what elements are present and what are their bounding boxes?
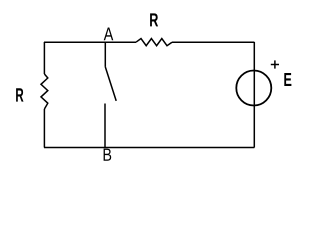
switch S1 lower lead (to node B) — [104, 104, 106, 148]
wire top-right segment (resistor R1 to top-right corner) — [172, 41, 254, 43]
node A label — [104, 28, 114, 41]
node B label — [104, 149, 112, 161]
wire top-left segment (corner to resistor R1, through node A) — [44, 41, 136, 43]
resistor R2 value label R — [16, 88, 23, 101]
voltage source E plus sign — [271, 60, 279, 68]
resistor R1 value label R — [150, 13, 158, 26]
resistor R1 (top) — [136, 39, 172, 46]
wire bottom segment — [44, 147, 254, 149]
switch S1 upper lead (from node A) — [104, 42, 106, 67]
wire right segment (through voltage source E) — [253, 42, 255, 148]
resistor R2 (left) — [41, 74, 48, 109]
wire left-bottom segment (resistor R2 to bottom-left corner) — [43, 109, 45, 148]
voltage source E value label — [284, 73, 291, 86]
switch S1 blade (open) — [105, 67, 116, 101]
voltage source E circle — [236, 71, 271, 106]
wire left-top segment (corner to resistor R2) — [43, 42, 45, 74]
